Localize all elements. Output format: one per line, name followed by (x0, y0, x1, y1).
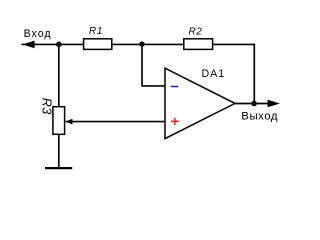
svg-text:Вход: Вход (24, 28, 52, 40)
svg-text:Выход: Выход (241, 110, 278, 122)
svg-text:R2: R2 (189, 27, 203, 38)
svg-text:DA1: DA1 (202, 68, 226, 80)
svg-text:R3: R3 (39, 98, 53, 115)
svg-text:R1: R1 (89, 26, 103, 37)
